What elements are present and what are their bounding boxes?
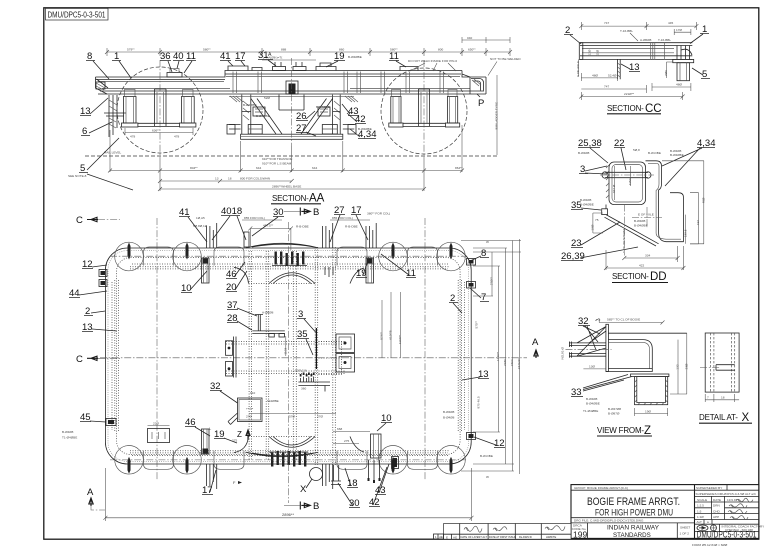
section A arrows	[87, 337, 539, 510]
svg-text:48Ø: 48Ø	[592, 74, 598, 78]
svg-text:T-16-BBL: T-16-BBL	[620, 29, 633, 33]
lower fan 33	[583, 375, 632, 392]
svg-text:18: 18	[228, 177, 232, 181]
right edge fittings	[467, 259, 476, 440]
svg-text:DRN: DRN	[713, 504, 720, 508]
vertical box item 30 top	[244, 232, 249, 247]
label SECTION-AA	[271, 193, 325, 205]
svg-text:B-Ø4ØBE: B-Ø4ØBE	[358, 127, 372, 131]
svg-text:668: 668	[337, 427, 342, 431]
svg-text:T1-Ø4ØBE: T1-Ø4ØBE	[583, 409, 598, 413]
svg-text:FOR HIGH POWER DMU: FOR HIGH POWER DMU	[595, 508, 673, 518]
pin rod item 22	[600, 172, 654, 178]
svg-text:W: W	[486, 475, 489, 479]
svg-text:CHD: CHD	[713, 509, 720, 513]
bottom dimension rows	[108, 125, 464, 191]
alteration marker box	[434, 534, 444, 539]
section B arrows	[284, 207, 319, 512]
bolster mid horizontal	[242, 111, 340, 113]
svg-text:52Ø,116: 52Ø,116	[295, 369, 307, 373]
stud cluster bottom-left	[206, 464, 218, 492]
inner dims DD	[615, 166, 631, 200]
svg-text:360: 360	[301, 387, 306, 391]
svg-text:DMU/DPC5-0-3-501: DMU/DPC5-0-3-501	[48, 10, 106, 19]
thick web segment item 3	[315, 328, 317, 369]
svg-text:STANDARDS: STANDARDS	[613, 532, 651, 539]
diagonal braces Z	[577, 327, 606, 357]
right dimension chain	[461, 239, 521, 479]
svg-text:B-Ø4ØBE: B-Ø4ØBE	[243, 103, 257, 107]
svg-text:1:2.5: 1:2.5	[697, 504, 704, 508]
axle centre mark	[632, 207, 662, 228]
svg-text:747: 747	[604, 21, 609, 25]
svg-text:a: a	[707, 520, 709, 524]
spring seat circles bottom-left	[115, 446, 244, 475]
T bracket items 37/28	[252, 311, 284, 338]
svg-text:FORM Ø5 A2 84Ø × 6ØØ: FORM Ø5 A2 84Ø × 6ØØ	[692, 543, 728, 547]
svg-text:E OF TRANSOM: E OF TRANSOM	[622, 229, 626, 253]
left edge fittings	[99, 270, 116, 426]
svg-text:BOGIE FRAME ARRGT.: BOGIE FRAME ARRGT.	[587, 496, 680, 508]
dim 636 under axleboxes	[125, 128, 193, 135]
svg-text:199: 199	[573, 530, 587, 540]
beam left end	[96, 77, 109, 94]
axle centreline	[578, 59, 580, 76]
svg-text:R-B-DBE: R-B-DBE	[296, 225, 309, 229]
svg-text:C: C	[76, 354, 83, 365]
svg-text:422: 422	[639, 264, 644, 268]
dim 130	[583, 368, 606, 370]
right bolt assembly item 5	[673, 46, 694, 81]
svg-text:B-Ø4Ø8: B-Ø4Ø8	[62, 430, 74, 434]
svg-text:22Ø: 22Ø	[153, 422, 159, 426]
svg-text:X: X	[300, 484, 307, 495]
svg-text:1:5: 1:5	[697, 509, 702, 513]
Z arrow	[232, 430, 250, 443]
transom web 4	[333, 247, 336, 465]
axlebox assembly 3	[389, 90, 403, 128]
svg-text:SEE NOTE-8: SEE NOTE-8	[68, 174, 87, 178]
drg file strip	[571, 518, 695, 523]
outrigger right	[343, 125, 355, 130]
spring seat circles top-right	[337, 242, 465, 271]
svg-text:DATE: DATE	[713, 498, 721, 502]
bottom dims DD	[622, 246, 679, 262]
hanging bits below 27 cluster	[325, 267, 333, 277]
bottom dim 2896	[103, 468, 473, 521]
svg-text:11Ø: 11Ø	[596, 49, 600, 55]
axle centre lines	[160, 60, 424, 158]
logo row	[695, 524, 759, 531]
svg-text:SCALE: SCALE	[697, 498, 707, 502]
side frame inner edges	[130, 264, 450, 456]
axlebox assembly 1	[122, 90, 138, 128]
top dimension row	[105, 36, 512, 56]
svg-text:23Ø: 23Ø	[684, 363, 688, 369]
axle pedestal left	[152, 89, 169, 127]
band hump bottom centre	[246, 452, 318, 457]
svg-text:B-Ø4ØBE: B-Ø4ØBE	[580, 203, 594, 207]
svg-text:888: 888	[281, 47, 286, 51]
svg-text:13: 13	[215, 177, 219, 181]
svg-text:27Ø**: 27Ø**	[489, 276, 493, 285]
svg-text:X: X	[742, 412, 750, 424]
stud cluster bottom right pins	[368, 460, 381, 483]
pin housing items 42/43	[392, 457, 399, 469]
svg-text:13Ø: 13Ø	[589, 365, 595, 369]
lifting pads on top	[273, 67, 286, 71]
svg-text:T1-Ø4ØBE: T1-Ø4ØBE	[62, 436, 77, 440]
svg-text:A-Ø6Ø8: A-Ø6Ø8	[640, 38, 652, 42]
svg-text:SECTION-: SECTION-	[607, 104, 644, 113]
svg-text:579**: 579**	[127, 47, 135, 51]
inner vertical dims right half	[382, 292, 401, 358]
svg-text:445: 445	[668, 21, 673, 25]
svg-text:B-Ø4Ø8: B-Ø4Ø8	[580, 198, 592, 202]
plan inner boundary	[117, 258, 461, 455]
svg-text:1Ø,A5: 1Ø,A5	[196, 216, 205, 220]
transom web 2	[266, 251, 269, 461]
svg-text:DMU/DPC5-0-3-501: DMU/DPC5-0-3-501	[697, 530, 757, 540]
svg-text:1:1Ø: 1:1Ø	[697, 515, 704, 519]
svg-text:B-Ø47Ø8: B-Ø47Ø8	[608, 407, 621, 411]
svg-text:139.5: 139.5	[683, 229, 687, 237]
svg-text:2300: 2300	[510, 359, 514, 366]
svg-text:192: 192	[696, 220, 700, 225]
svg-text:040: 040	[467, 36, 472, 40]
svg-text:12Ø: 12Ø	[588, 49, 592, 55]
diagonal gusset	[605, 215, 659, 246]
svg-text:B-Ø4ØBE: B-Ø4ØBE	[316, 105, 330, 109]
small brackets on beam top left	[167, 73, 182, 78]
central bolt cluster item 35	[295, 369, 330, 392]
svg-text:B-Ø4Ø8: B-Ø4Ø8	[443, 410, 455, 414]
sand box	[631, 374, 669, 405]
svg-text:1730**: 1730**	[496, 351, 500, 361]
svg-text:SUPERSEDES DMU/DPC5-0-3-5Ø AL: SUPERSEDES DMU/DPC5-0-3-5Ø ALT a/3	[696, 492, 756, 496]
top edge line	[608, 332, 686, 334]
svg-text:B-Ø4ØBE: B-Ø4ØBE	[634, 224, 648, 228]
right dims DD	[685, 215, 687, 244]
svg-text:Tk4ØBE: Tk4ØBE	[267, 399, 279, 403]
bracket right of transom4	[336, 334, 355, 372]
svg-text:644: 644	[312, 166, 317, 170]
svg-text:B-Ø-DBE: B-Ø-DBE	[648, 151, 661, 155]
transom web 1	[249, 251, 252, 461]
svg-text:SHEET: SHEET	[680, 526, 690, 530]
centre comb studs bottom	[271, 451, 306, 467]
section C arrows	[76, 215, 120, 365]
svg-text:DATE AT FIRST ISSUE: DATE AT FIRST ISSUE	[489, 535, 516, 539]
svg-text:27Ø: 27Ø	[317, 415, 323, 419]
svg-text:48Ø: 48Ø	[676, 83, 682, 87]
superseded by strip	[695, 485, 759, 491]
brackets on beam at 41/17	[228, 66, 262, 71]
top dims	[579, 22, 698, 30]
signatures handwriting	[736, 498, 753, 502]
band hump top centre	[246, 243, 318, 248]
bump stop seats left of transom1	[226, 337, 237, 378]
svg-text:52Ø: 52Ø	[264, 96, 270, 100]
svg-text:910**FOR L.S BEAM: 910**FOR L.S BEAM	[262, 161, 292, 165]
headstock tube section	[609, 162, 646, 205]
group strip	[571, 489, 695, 491]
transom tube side view	[580, 43, 692, 60]
svg-text:132: 132	[676, 364, 680, 369]
supersedes strip	[695, 495, 759, 497]
svg-text:2896**WHEEL BASE: 2896**WHEEL BASE	[272, 185, 301, 189]
svg-text:1 OF 2: 1 OF 2	[680, 532, 690, 536]
svg-text:910: 910	[250, 391, 255, 395]
X label	[300, 479, 312, 495]
bracket item 10 bottom right	[371, 434, 382, 458]
svg-text:574**: 574**	[380, 331, 384, 339]
axle pedestal right	[416, 89, 432, 127]
svg-text:910**FOR TRANSOM: 910**FOR TRANSOM	[262, 157, 293, 161]
svg-text:B-Ø4Ø8: B-Ø4Ø8	[578, 151, 590, 155]
svg-text:B-Ø87Ø: B-Ø87Ø	[608, 412, 620, 416]
bracket at 19	[316, 63, 336, 71]
svg-text:585** TO CL OF BOGIE: 585** TO CL OF BOGIE	[607, 318, 640, 322]
svg-text:334: 334	[645, 254, 650, 258]
svg-text:VIEW FROM-: VIEW FROM-	[597, 426, 644, 435]
svg-text:A-Ø8Ø8: A-Ø8Ø8	[262, 311, 274, 315]
svg-text:AA: AA	[309, 193, 325, 205]
beam rivet verticals	[233, 72, 444, 94]
foot of transom4 below frame	[331, 465, 341, 485]
svg-text:RAIL LEVEL: RAIL LEVEL	[104, 151, 122, 155]
svg-text:45Ø: 45Ø	[701, 197, 705, 203]
svg-text:E OF AXLE: E OF AXLE	[638, 213, 654, 217]
drawing number box top-left	[46, 8, 109, 20]
bolster feet	[248, 125, 262, 135]
svg-text:HWR/TE: HWR/TE	[546, 535, 556, 539]
svg-text:APP: APP	[713, 515, 719, 519]
bolster flange underline	[229, 96, 354, 98]
svg-text:18: 18	[721, 396, 725, 400]
equalizer left	[138, 123, 180, 126]
coil seat bracket item 10 bottom	[202, 429, 210, 454]
weld marks mid	[651, 43, 665, 60]
svg-text:870 46.5: 870 46.5	[477, 396, 481, 408]
beam bottom flange	[98, 91, 486, 94]
rounded body	[606, 340, 652, 372]
svg-text:+=1=: +=1=	[246, 407, 253, 411]
bolster diagonals	[251, 99, 333, 135]
svg-text:Z: Z	[237, 430, 242, 439]
svg-text:Rs-DWG'D: Rs-DWG'D	[519, 535, 532, 539]
svg-text:17Ø: 17Ø	[676, 28, 682, 32]
svg-text:800 FOR COLS/WHN: 800 FOR COLS/WHN	[240, 177, 270, 181]
svg-text:DATE OF LATEST ALT: DATE OF LATEST ALT	[461, 535, 488, 539]
svg-text:19Ø: 19Ø	[645, 409, 651, 413]
bottom row cells	[588, 523, 678, 539]
svg-text:2Ø6: 2Ø6	[664, 70, 668, 76]
svg-text:747: 747	[604, 85, 609, 89]
svg-text:57Ø: 57Ø	[289, 415, 295, 419]
svg-text:898 LADDER TYRE: 898 LADDER TYRE	[495, 102, 499, 130]
equalizer right	[403, 123, 445, 126]
main side frame beam top flange	[96, 71, 463, 78]
shaft dims row	[249, 413, 336, 415]
svg-text:ALT: ALT	[697, 520, 703, 524]
svg-text:AE: AE	[453, 535, 457, 539]
svg-text:A: A	[87, 487, 94, 498]
svg-text:DRG FILE: C:\WD-DRD\DPLO-D\DC\: DRG FILE: C:\WD-DRD\DPLO-D\DC\Y37D5.DWG	[574, 519, 644, 523]
svg-text:575**: 575**	[475, 320, 479, 328]
svg-text:DO NOT WELD INSIDE FOR PIN-6: DO NOT WELD INSIDE FOR PIN-6	[408, 59, 457, 63]
left stub item 35	[602, 209, 608, 215]
svg-text:7: 7	[707, 396, 709, 400]
coil seat bracket top-right	[366, 258, 374, 283]
svg-text:DETAIL AT-: DETAIL AT-	[699, 413, 738, 422]
svg-text:B-Ø4Ø8: B-Ø4Ø8	[586, 397, 598, 401]
ladder dim right	[496, 75, 498, 155]
svg-text:2180: 2180	[503, 359, 507, 366]
title block outer	[571, 485, 759, 539]
stud cluster top right	[365, 220, 377, 248]
svg-text:580**: 580**	[203, 47, 211, 51]
stud cluster bottom mid	[322, 464, 334, 492]
plan outer boundary	[105, 248, 471, 464]
svg-text:INDIAN RAILWAY: INDIAN RAILWAY	[607, 525, 659, 532]
kingpin cluster dark	[286, 81, 298, 94]
svg-text:2476.5**: 2476.5**	[517, 357, 521, 370]
left rails	[569, 343, 606, 356]
svg-text:800: 800	[438, 47, 443, 51]
spring seat circles bottom-right	[337, 446, 465, 475]
svg-text:636**: 636**	[152, 129, 160, 133]
svg-text:27Ø: 27Ø	[246, 415, 252, 419]
svg-text:1103**: 1103**	[398, 334, 402, 344]
hanging rod item 13	[617, 59, 620, 79]
outer profile right	[646, 161, 684, 242]
approval strip	[444, 524, 571, 540]
bracket at 11 right	[400, 67, 418, 71]
svg-text:SECTION-: SECTION-	[272, 194, 309, 203]
transom web 3	[315, 247, 318, 465]
F mark	[233, 480, 242, 485]
svg-text:75: 75	[595, 218, 599, 222]
svg-text:B-Ø-DBE: B-Ø-DBE	[480, 454, 493, 458]
svg-text:B: B	[313, 501, 319, 512]
centre tube webs	[293, 251, 296, 461]
dotted pads on transom4	[319, 342, 342, 375]
svg-text:E OF AXLE: E OF AXLE	[576, 61, 580, 77]
left end bracket	[96, 82, 126, 137]
svg-text:B-Ø4ØBE: B-Ø4ØBE	[348, 55, 362, 59]
svg-text:327 Ø: 327 Ø	[612, 184, 616, 193]
svg-text:B: B	[313, 207, 319, 218]
dim 190	[635, 408, 668, 416]
svg-text:A: A	[532, 337, 539, 348]
left end cap	[579, 43, 583, 60]
left/right divider	[694, 485, 696, 539]
svg-text:855 FOR COL): 855 FOR COL)	[244, 216, 265, 220]
transom centreline	[623, 205, 625, 256]
svg-text:B-Ø4Ø8: B-Ø4Ø8	[443, 416, 455, 420]
top dim Z	[595, 319, 664, 325]
svg-text:A: A	[268, 52, 272, 58]
svg-text:275: 275	[344, 439, 349, 443]
wheel left (dashed circle)	[117, 67, 203, 153]
svg-text:52,4Ø: 52,4Ø	[608, 74, 617, 78]
upright plate	[606, 324, 609, 371]
top dims of plan	[193, 212, 390, 251]
svg-text:864**: 864**	[455, 166, 463, 170]
centre lines	[100, 357, 527, 359]
svg-text:7.2: 7.2	[596, 318, 601, 322]
svg-text:644: 644	[256, 166, 261, 170]
wheel right (dashed circle)	[381, 68, 467, 154]
svg-text:619**5: 619**5	[389, 330, 393, 340]
svg-text:NOT TO BE WELDED: NOT TO BE WELDED	[490, 57, 521, 61]
svg-text:GROUP: BOGIE FRAME ARRGT.(D-: GROUP: BOGIE FRAME ARRGT.(D-C)	[574, 486, 628, 490]
svg-text:B-Ø4ØBE: B-Ø4ØBE	[670, 153, 684, 157]
svg-text:478: 478	[174, 135, 179, 139]
svg-text:E: E	[446, 535, 448, 539]
axlebox assembly 4	[445, 90, 459, 128]
svg-text:5Ø,8: 5Ø,8	[633, 148, 640, 152]
swan neck curves	[234, 267, 364, 283]
dim 1103	[285, 336, 287, 356]
svg-text:SECTION-: SECTION-	[612, 272, 649, 281]
svg-text:B-Ø4ØBE: B-Ø4ØBE	[256, 114, 270, 118]
svg-text:NO,81-Ø: NO,81-Ø	[561, 347, 565, 360]
small box above bottom band left	[148, 422, 170, 443]
right dims Z	[670, 333, 687, 394]
svg-text:855 FOR COL): 855 FOR COL)	[332, 216, 353, 220]
svg-text:DD: DD	[650, 271, 667, 283]
svg-text:C: C	[76, 215, 83, 226]
outrigger left	[229, 125, 241, 130]
svg-text:Z: Z	[644, 425, 651, 437]
svg-text:804**: 804**	[190, 166, 198, 170]
stud cluster top-left	[206, 220, 218, 248]
svg-text:AE: AE	[439, 535, 443, 539]
centre comb studs top	[275, 252, 305, 267]
svg-text:W: W	[486, 240, 489, 244]
left dims DD	[593, 213, 603, 233]
svg-text:B-Ø4Ø8: B-Ø4Ø8	[634, 219, 646, 223]
coil seat bracket item 10 top	[202, 258, 210, 283]
rail level	[85, 155, 497, 157]
svg-text:115A: 115A	[628, 177, 632, 185]
box item 32	[228, 391, 279, 425]
svg-text:478: 478	[130, 135, 135, 139]
spring seat circles top-left	[115, 242, 244, 271]
svg-text:221Ø**: 221Ø**	[624, 92, 635, 96]
svg-text:380** FOR COL): 380** FOR COL)	[367, 212, 390, 216]
bottom dims CC	[581, 63, 617, 81]
hatched brackets under flange	[230, 96, 358, 102]
svg-text:CC: CC	[645, 103, 662, 115]
svg-text:P: P	[478, 98, 484, 109]
svg-text:T-16-BBL: T-16-BBL	[658, 38, 671, 42]
axlebox assembly 2	[180, 90, 196, 128]
svg-text:2896**: 2896**	[282, 512, 294, 517]
bolster centre structure	[227, 56, 358, 147]
stud cluster top mid-right	[322, 220, 334, 248]
svg-text:1103: 1103	[284, 348, 288, 355]
longitudinal beams	[226, 342, 345, 374]
svg-text:19.9.97: 19.9.97	[727, 498, 738, 502]
svg-text:650**: 650**	[468, 47, 476, 51]
centre line	[291, 58, 293, 146]
svg-text:SUPERSEDED BY: SUPERSEDED BY	[696, 486, 722, 490]
dims 668/275 bottom centre	[333, 432, 370, 444]
alt strip	[695, 520, 759, 525]
